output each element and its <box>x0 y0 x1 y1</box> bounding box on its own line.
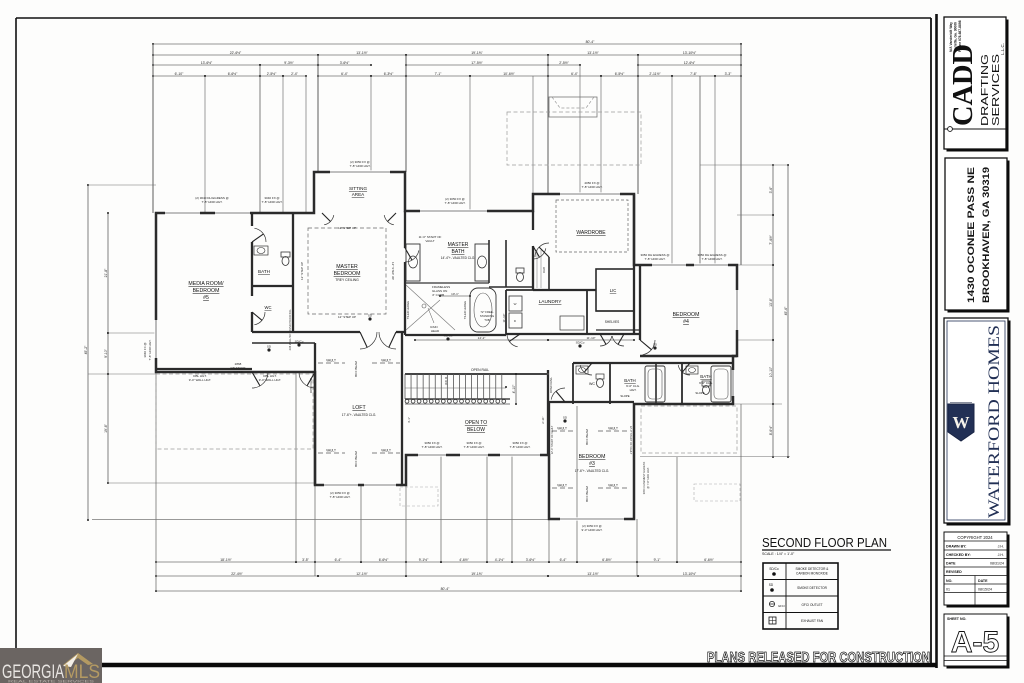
svg-text:80'-4": 80'-4" <box>586 40 595 44</box>
svg-text:BOX BEAM: BOX BEAM <box>585 486 589 502</box>
svg-text:10'-1": 10'-1" <box>451 292 459 296</box>
window master bath north <box>420 209 487 212</box>
door laundry <box>507 334 518 347</box>
svg-text:WC: WC <box>265 305 272 310</box>
svg-text:7'-8" HDR HGT.: 7'-8" HDR HGT. <box>445 201 466 205</box>
svg-text:HEAD: HEAD <box>431 329 440 333</box>
svg-text:3040 FX @: 3040 FX @ <box>143 342 147 357</box>
waterford logo shield <box>948 404 974 441</box>
loft west wall <box>314 343 316 485</box>
door deck double left <box>252 372 268 388</box>
wall wc master x506 x533 <box>505 240 507 287</box>
master freestanding tub <box>470 288 496 332</box>
washer dryer <box>509 296 522 311</box>
lower bath left fixtures <box>576 366 588 374</box>
svg-text:7'-8" HDR HGT.: 7'-8" HDR HGT. <box>330 495 351 499</box>
svg-text:22'-6½": 22'-6½" <box>230 51 242 55</box>
svg-text:7'-1": 7'-1" <box>435 72 443 76</box>
top dimension row 4 <box>153 75 205 77</box>
svg-text:13'-1½": 13'-1½" <box>587 51 599 55</box>
bottom dim extension lines <box>155 372 157 591</box>
svg-text:3'-6": 3'-6" <box>769 186 773 194</box>
sink bath upper <box>254 246 268 255</box>
svg-text:SMOKE DETECTOR: SMOKE DETECTOR <box>797 586 828 590</box>
svg-text:SITTING: SITTING <box>349 186 368 191</box>
svg-text:7'-8" HDR HGT.: 7'-8" HDR HGT. <box>148 339 152 360</box>
wall master bath east x489 <box>488 240 490 283</box>
shelves box <box>596 310 634 312</box>
legend row3 gfci <box>769 601 774 606</box>
svg-text:TILED LEDGE: TILED LEDGE <box>463 301 467 319</box>
svg-text:SHELVES: SHELVES <box>605 320 619 324</box>
svg-text:SD/Co: SD/Co <box>444 334 453 338</box>
svg-text:10'-10": 10'-10" <box>769 366 773 377</box>
svg-text:2'-11": 2'-11" <box>541 416 545 423</box>
svg-text:19'-6": 19'-6" <box>104 423 108 432</box>
svg-text:13'-6": 13'-6" <box>769 297 773 306</box>
svg-text:9'-10": 9'-10" <box>104 348 108 357</box>
wall master west x293 <box>292 213 294 332</box>
open to below east wall x548 <box>547 370 549 455</box>
svg-text:WARDROBE: WARDROBE <box>576 230 606 236</box>
top dimension extension lines <box>152 44 154 213</box>
svg-text:RATED: RATED <box>233 370 244 374</box>
svg-text:6'-10": 6'-10" <box>175 72 184 76</box>
svg-text:LOFT: LOFT <box>352 405 366 411</box>
svg-text:9'-3½": 9'-3½" <box>284 61 294 65</box>
lower bath right fixtures <box>686 366 698 374</box>
svg-text:6'-6½": 6'-6½" <box>379 558 389 562</box>
svg-text:21'-8": 21'-8" <box>104 268 108 277</box>
master bath right vanity <box>475 244 489 281</box>
svg-text:OPEN RAIL: OPEN RAIL <box>549 377 553 393</box>
svg-text:LIC: LIC <box>610 288 617 293</box>
bottom dimension row B <box>156 575 318 577</box>
bedroom3 north wall <box>549 401 634 403</box>
door master double <box>360 332 377 349</box>
window sitting north <box>330 170 390 173</box>
bath corridor dividers <box>572 363 574 404</box>
svg-text:08/15/24: 08/15/24 <box>978 588 992 592</box>
svg-text:12'-1½": 12'-1½" <box>356 572 368 576</box>
loft vault dashed lines <box>318 362 345 364</box>
svg-text:@ 7'-8" HDR HGT.: @ 7'-8" HDR HGT. <box>646 467 650 489</box>
window media room west <box>154 320 157 358</box>
svg-text:45'-2": 45'-2" <box>84 345 88 354</box>
stair balusters <box>405 399 409 403</box>
svg-text:10'-6½": 10'-6½" <box>503 72 515 76</box>
dashed roof chase top center <box>507 112 641 165</box>
legend row4 exhaust fan <box>769 617 776 624</box>
door bath lower right <box>678 365 690 375</box>
svg-text:BATH: BATH <box>452 249 465 255</box>
svg-text:9'-1½": 9'-1½" <box>419 558 429 562</box>
svg-text:BEDROOM: BEDROOM <box>673 312 700 318</box>
svg-text:(16) R: (16) R <box>444 376 448 385</box>
hall west jog wall <box>252 342 315 344</box>
address box 1430 oconee <box>948 161 1010 313</box>
svg-text:18'-1½": 18'-1½" <box>220 558 232 562</box>
svg-text:BELOW: BELOW <box>467 427 485 433</box>
svg-text:CARBON MONOXIDE: CARBON MONOXIDE <box>796 572 828 576</box>
svg-text:WATERFORD HOMES: WATERFORD HOMES <box>986 325 1003 518</box>
wardrobe inner shelves dashed <box>556 200 628 252</box>
svg-text:#4: #4 <box>683 319 689 325</box>
svg-text:6'-4": 6'-4" <box>560 558 568 562</box>
door hall closet double <box>600 336 612 346</box>
svg-text:13'-10½": 13'-10½" <box>683 572 697 576</box>
svg-text:VAULT: VAULT <box>557 427 567 431</box>
dashed roof outline lower-right porch <box>641 406 737 453</box>
closet shelves x533-549 <box>536 250 538 288</box>
bedroom4 west wall <box>639 265 641 340</box>
svg-text:13'-10½": 13'-10½" <box>683 51 697 55</box>
svg-text:4'-6½": 4'-6½" <box>459 558 469 562</box>
waterford homes box <box>947 321 1011 526</box>
svg-text:J.H.: J.H. <box>998 553 1004 557</box>
svg-text:#5: #5 <box>203 295 209 301</box>
svg-text:7'-8" HDR HGT.: 7'-8" HDR HGT. <box>645 257 666 261</box>
LIC closet box <box>596 269 634 311</box>
svg-text:12" STEP UP: 12" STEP UP <box>338 315 356 319</box>
svg-text:3'-3": 3'-3" <box>725 72 733 76</box>
wall master east x405 <box>404 211 406 248</box>
door wc <box>254 312 265 325</box>
svg-text:6'-4": 6'-4" <box>335 558 343 562</box>
svg-text:45'-6": 45'-6" <box>784 306 788 315</box>
svg-text:6'-6½": 6'-6½" <box>704 558 714 562</box>
wardrobe south wall <box>548 257 550 290</box>
svg-text:7'-4½": 7'-4½" <box>769 234 773 244</box>
svg-text:9'-1": 9'-1" <box>654 558 662 562</box>
svg-text:12'-6½": 12'-6½" <box>684 61 696 65</box>
left dimension line overall 45-2 <box>87 185 89 520</box>
svg-text:7'-8" HDR HGT.: 7'-8" HDR HGT. <box>350 164 371 168</box>
door deck double right <box>299 372 315 388</box>
svg-text:7'-6": 7'-6" <box>690 72 698 76</box>
wall wc south / hall top <box>252 331 293 333</box>
svg-text:4'-10": 4'-10" <box>512 384 516 393</box>
wall wardrobe east x634 <box>633 194 635 334</box>
stair treads <box>404 374 406 399</box>
svg-text:MASTER: MASTER <box>448 242 469 248</box>
svg-text:REVISED: REVISED <box>946 570 962 574</box>
misc interior dims <box>415 339 548 341</box>
svg-text:BEDROOM: BEDROOM <box>193 288 220 294</box>
top dimension row 2 <box>153 54 318 56</box>
svg-text:6'-4": 6'-4" <box>571 72 579 76</box>
svg-text:80'-4": 80'-4" <box>441 587 450 591</box>
svg-text:11'-10": 11'-10" <box>502 313 506 322</box>
wall media east x252 <box>251 213 253 226</box>
window bedroom3 south <box>560 517 624 520</box>
svg-text:W: W <box>953 413 970 432</box>
cadd box pin line <box>944 128 1006 130</box>
top dimension row 3 <box>153 64 260 66</box>
right dim connectors <box>700 164 788 166</box>
svg-text:6'-6½": 6'-6½" <box>228 72 238 76</box>
svg-text:VAULT: VAULT <box>381 449 391 453</box>
svg-text:BOX BEAM: BOX BEAM <box>354 361 358 377</box>
window bedroom4 east <box>735 290 738 330</box>
svg-text:17'-6"+- VAULTED CLG.: 17'-6"+- VAULTED CLG. <box>575 469 610 473</box>
svg-text:BOX BEAM: BOX BEAM <box>354 451 358 467</box>
svg-text:N/A Vanderbilt Way: N/A Vanderbilt Way <box>949 22 953 52</box>
svg-text:SLOPE: SLOPE <box>620 394 629 398</box>
svg-text:A-5: A-5 <box>951 626 999 659</box>
svg-text:4" CURB: 4" CURB <box>432 293 444 297</box>
svg-text:17'-5½": 17'-5½" <box>471 61 483 65</box>
left dimension line segments <box>107 213 109 333</box>
svg-text:2'-5½": 2'-5½" <box>267 72 277 76</box>
svg-text:HGT.: HGT. <box>630 388 637 392</box>
svg-text:VAULT: VAULT <box>608 484 618 488</box>
svg-text:GFCI OUTLET: GFCI OUTLET <box>801 603 822 607</box>
svg-text:14'-4"+- VAULTED CLG.: 14'-4"+- VAULTED CLG. <box>441 256 476 260</box>
svg-text:DATE: DATE <box>978 579 988 583</box>
svg-text:1430 OCONEE PASS NE: 1430 OCONEE PASS NE <box>966 167 976 303</box>
dashed roof outline lower-left porch <box>156 374 313 449</box>
svg-text:2'-4": 2'-4" <box>291 72 299 76</box>
toilet bath upper <box>281 252 290 257</box>
svg-text:MASTER: MASTER <box>336 264 358 270</box>
svg-text:3'-6½": 3'-6½" <box>526 558 536 562</box>
door wic <box>533 248 546 259</box>
master wc toilet <box>516 268 524 273</box>
sheet border frame <box>15 18 17 648</box>
svg-text:SD: SD <box>769 583 774 587</box>
svg-text:19'-1⅝": 19'-1⅝" <box>471 572 483 576</box>
svg-text:DATE: DATE <box>946 562 956 566</box>
bedroom3 vault dashed <box>552 430 573 432</box>
svg-text:9'-0" HDR HGT.: 9'-0" HDR HGT. <box>582 528 603 532</box>
svg-text:COPYRIGHT 2024: COPYRIGHT 2024 <box>957 535 993 540</box>
svg-text:SHEET NO.: SHEET NO. <box>947 617 966 621</box>
svg-text:SD/Co: SD/Co <box>295 340 304 344</box>
svg-text:6'-5½": 6'-5½" <box>615 72 625 76</box>
svg-text:7'-8" HDR HGT.: 7'-8" HDR HGT. <box>582 185 603 189</box>
door sitting left <box>324 215 334 225</box>
georgia mls logo <box>0 648 102 683</box>
tub bath lower right <box>711 366 731 402</box>
svg-text:CADD: CADD <box>947 44 979 126</box>
svg-text:22'-4½": 22'-4½" <box>231 572 243 576</box>
svg-text:L.L.C.: L.L.C. <box>1000 43 1005 55</box>
svg-text:14'-2": 14'-2" <box>478 336 486 340</box>
door master bath entry <box>405 250 419 262</box>
svg-text:11'-10": 11'-10" <box>586 336 595 340</box>
wall shower/tub line y283 <box>405 282 489 284</box>
heavy bottom border line <box>102 663 937 668</box>
svg-text:BATH: BATH <box>700 374 711 379</box>
svg-text:VAULT: VAULT <box>326 449 336 453</box>
svg-text:MEDIA ROOM/: MEDIA ROOM/ <box>188 281 224 287</box>
svg-text:RHB: RHB <box>542 267 546 273</box>
chimney chase <box>549 97 597 117</box>
svg-text:13'-1½": 13'-1½" <box>587 572 599 576</box>
svg-text:2'-11½": 2'-11½" <box>649 72 661 76</box>
wall bath corridor north y363 <box>573 362 733 364</box>
svg-text:6'-8½": 6'-8½" <box>602 558 612 562</box>
window wardrobe north <box>560 192 620 195</box>
laundry walls <box>506 289 587 291</box>
svg-text:CHECKED BY:: CHECKED BY: <box>946 553 971 557</box>
exterior wall outline <box>156 172 737 519</box>
window open-below south <box>418 453 446 456</box>
svg-text:SECOND FLOOR PLAN: SECOND FLOOR PLAN <box>762 536 887 550</box>
svg-text:PLANS RELEASED FOR CONSTRUCTIO: PLANS RELEASED FOR CONSTRUCTION <box>707 649 930 666</box>
stair mid rail line <box>405 387 506 389</box>
svg-text:OPEN RAIL: OPEN RAIL <box>471 368 489 372</box>
cadd drafting services box <box>947 20 1009 152</box>
svg-text:VAULT: VAULT <box>381 359 391 363</box>
svg-text:#3: #3 <box>589 461 595 467</box>
right dimension lines <box>772 165 774 215</box>
svg-text:4'-1½": 4'-1½" <box>495 558 505 562</box>
svg-text:3'-6½": 3'-6½" <box>340 61 350 65</box>
svg-text:7'-8" HDR HGT.: 7'-8" HDR HGT. <box>510 445 531 449</box>
window media room north <box>165 211 200 214</box>
svg-text:13'-1½": 13'-1½" <box>356 51 368 55</box>
window loft south <box>324 483 358 486</box>
svg-text:BEDROOM: BEDROOM <box>334 271 361 277</box>
laundry sink counter <box>560 316 584 330</box>
svg-text:SD/Co: SD/Co <box>576 341 585 345</box>
svg-text:W: W <box>514 302 517 306</box>
stair right dim <box>515 374 517 404</box>
roof overhang line lower left <box>92 519 548 521</box>
svg-text:TILED LEDGE: TILED LEDGE <box>406 301 410 319</box>
svg-text:7'-8" HDR HGT.: 7'-8" HDR HGT. <box>262 200 283 204</box>
door bath upper <box>254 228 266 242</box>
door wardrobe <box>535 243 549 257</box>
wall bath/wc divider <box>252 285 293 287</box>
top dimension row 1 overall 80-4 <box>153 43 741 45</box>
svg-text:12" STEP UP: 12" STEP UP <box>338 226 356 230</box>
svg-text:12'-0" START OF VAULT: 12'-0" START OF VAULT <box>550 425 554 454</box>
svg-text:VAULT: VAULT <box>425 239 434 243</box>
left dim connectors <box>108 332 156 334</box>
master bedroom tray dashed <box>308 228 386 314</box>
window bedroom4 north <box>652 263 686 266</box>
svg-text:VAULT: VAULT <box>557 484 567 488</box>
svg-text:Phone 678-687-8898: Phone 678-687-8898 <box>958 20 962 52</box>
svg-text:01: 01 <box>946 588 950 592</box>
stair open rail <box>405 373 549 375</box>
master shower <box>406 285 455 330</box>
svg-text:2'-5½": 2'-5½" <box>559 61 569 65</box>
svg-text:3'-5": 3'-5" <box>302 558 310 562</box>
door bath lower left <box>580 365 592 375</box>
svg-text:TUB: TUB <box>484 318 490 322</box>
door sitting right <box>384 215 394 225</box>
svg-text:SMOKE DETECTOR &: SMOKE DETECTOR & <box>796 567 830 571</box>
svg-text:7'-8" HDR HGT.: 7'-8" HDR HGT. <box>702 257 723 261</box>
sheet number box <box>947 617 1010 669</box>
loft east wall <box>401 332 403 485</box>
svg-text:BATH: BATH <box>258 269 270 274</box>
svg-text:08/31/24: 08/31/24 <box>990 562 1004 566</box>
svg-text:13'-6½": 13'-6½" <box>201 61 213 65</box>
svg-text:9'-0" WALL HGT.: 9'-0" WALL HGT. <box>259 378 282 382</box>
svg-text:BATH: BATH <box>624 378 635 383</box>
svg-text:VAULT: VAULT <box>608 427 618 431</box>
svg-text:SD/Co: SD/Co <box>769 567 779 571</box>
svg-text:8'-6½": 8'-6½" <box>769 425 773 435</box>
svg-text:6'-3½": 6'-3½" <box>384 72 394 76</box>
window bath east <box>731 370 734 396</box>
svg-text:SLOPE: SLOPE <box>695 391 704 395</box>
svg-text:LAUNDRY: LAUNDRY <box>539 299 563 305</box>
stair bottom rail <box>405 398 510 400</box>
svg-text:REAL ESTATE SERVICES: REAL ESTATE SERVICES <box>8 680 95 683</box>
svg-text:Marietta, Ga. 30066: Marietta, Ga. 30066 <box>954 22 958 52</box>
svg-text:19'-1⅝": 19'-1⅝" <box>471 51 483 55</box>
svg-text:WC: WC <box>589 382 595 386</box>
svg-text:NO.: NO. <box>946 579 952 583</box>
svg-text:OPEN TO: OPEN TO <box>465 420 487 426</box>
svg-text:GFCI: GFCI <box>778 604 785 608</box>
svg-text:7'-8" HDR HGT.: 7'-8" HDR HGT. <box>422 445 443 449</box>
svg-text:6'-4": 6'-4" <box>341 72 349 76</box>
svg-text:7'-8" HDR HGT.: 7'-8" HDR HGT. <box>464 445 485 449</box>
svg-text:2X6 WALL W/ SOUND PROOFING: 2X6 WALL W/ SOUND PROOFING <box>288 310 292 351</box>
svg-text:12" STEP UP: 12" STEP UP <box>391 262 395 280</box>
svg-text:DRAWN BY:: DRAWN BY: <box>946 545 967 549</box>
svg-text:12'-0" START OF VAULT: 12'-0" START OF VAULT <box>629 426 633 455</box>
svg-text:4'-1": 4'-1" <box>407 417 411 423</box>
wall hall spine y332 <box>293 331 360 333</box>
svg-text:12" STEP UP: 12" STEP UP <box>300 262 304 280</box>
svg-text:17'-6"+- VAULTED CLG.: 17'-6"+- VAULTED CLG. <box>342 413 377 417</box>
wall corridor y287-290 <box>489 286 533 288</box>
copyright table <box>947 535 1010 608</box>
legend box <box>763 563 838 629</box>
svg-text:BROOKHAVEN, GA 30319: BROOKHAVEN, GA 30319 <box>981 167 991 303</box>
svg-text:SERVICES: SERVICES <box>990 54 1002 126</box>
svg-text:3050 CASEMENT EGRESS: 3050 CASEMENT EGRESS <box>642 462 646 495</box>
bottom dimension row A <box>156 561 296 563</box>
bottom dimension row C overall <box>156 590 741 592</box>
svg-text:SCALE : 1/4" = 1'-0": SCALE : 1/4" = 1'-0" <box>762 552 795 556</box>
wall media south interior <box>156 368 252 370</box>
svg-text:J.H.: J.H. <box>998 545 1004 549</box>
door bedroom3 <box>551 388 565 400</box>
dashed open-to-below small rects <box>400 487 438 506</box>
svg-text:9'-0" WALL HGT.: 9'-0" WALL HGT. <box>189 378 212 382</box>
svg-text:BOX BEAM: BOX BEAM <box>585 429 589 445</box>
wall bedroom4 south <box>640 355 737 358</box>
svg-text:HGT.: HGT. <box>703 385 710 389</box>
tub bath lower left <box>645 366 665 402</box>
svg-text:AREA: AREA <box>352 192 365 197</box>
svg-text:EXHAUST FAN: EXHAUST FAN <box>801 619 824 623</box>
svg-text:TREY CEILING: TREY CEILING <box>335 278 359 282</box>
svg-text:VAULT: VAULT <box>326 359 336 363</box>
svg-text:BEDROOM: BEDROOM <box>579 454 606 460</box>
master bath left vanity <box>406 244 420 281</box>
door bedroom4 <box>643 340 655 355</box>
svg-text:7'-8" HDR HGT.: 7'-8" HDR HGT. <box>202 200 223 204</box>
